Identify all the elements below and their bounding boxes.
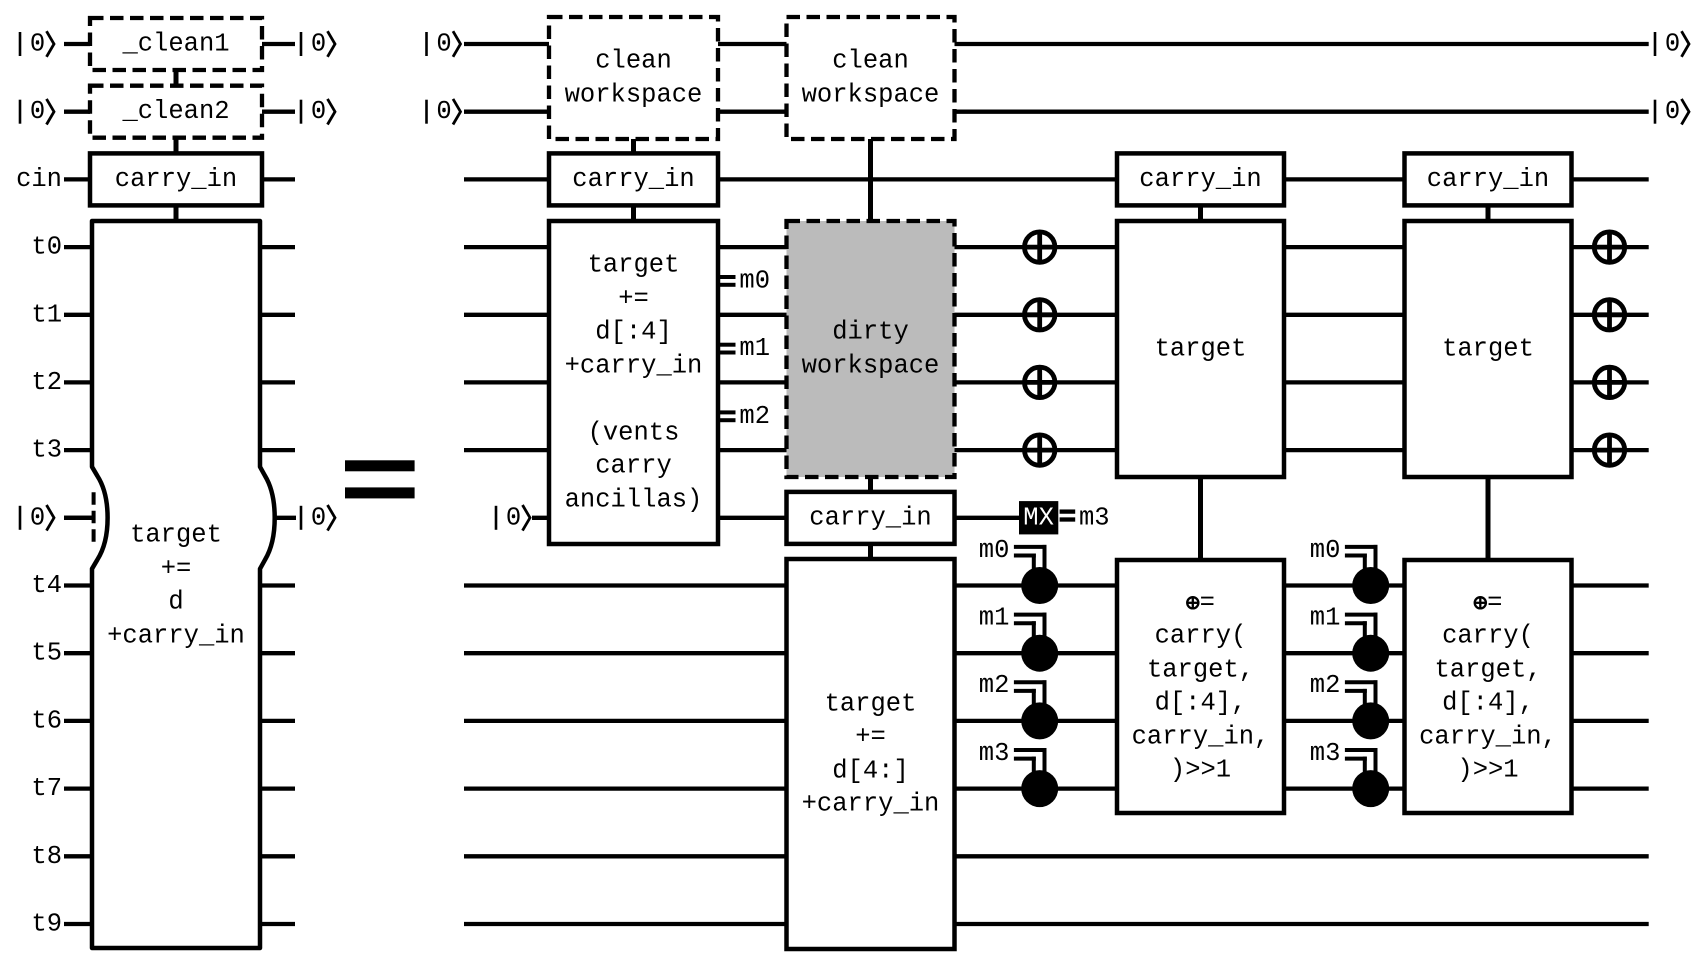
svg-text:t1: t1 <box>31 300 62 329</box>
svg-text:target,: target, <box>1147 655 1254 684</box>
svg-text:m0: m0 <box>979 536 1010 565</box>
svg-text:+carry_in: +carry_in <box>802 790 940 819</box>
svg-text:d[:4],: d[:4], <box>1442 689 1534 718</box>
svg-text:+=: += <box>618 284 649 313</box>
svg-text:m2: m2 <box>979 671 1010 700</box>
svg-text:carry(: carry( <box>1442 622 1534 651</box>
svg-text:d[:4]: d[:4] <box>595 318 672 347</box>
svg-text:+=: += <box>161 554 192 583</box>
svg-text:t2: t2 <box>31 368 62 397</box>
svg-text:t6: t6 <box>31 706 62 735</box>
svg-text:m1: m1 <box>739 334 770 363</box>
svg-text:carry_in,: carry_in, <box>1132 722 1270 751</box>
svg-text:target,: target, <box>1434 655 1541 684</box>
svg-text:m1: m1 <box>979 604 1010 633</box>
svg-text:workspace: workspace <box>802 351 940 380</box>
svg-text:target: target <box>825 689 917 718</box>
svg-text:target: target <box>130 521 222 550</box>
svg-text:_clean1: _clean1 <box>121 30 229 59</box>
svg-text:m0: m0 <box>1310 536 1341 565</box>
svg-text:+carry_in: +carry_in <box>565 351 703 380</box>
svg-text:)>>1: )>>1 <box>1170 756 1231 785</box>
svg-text:clean: clean <box>595 47 672 76</box>
svg-text:ancillas): ancillas) <box>565 485 703 514</box>
svg-text:target: target <box>1155 335 1247 364</box>
svg-text:t4: t4 <box>31 571 62 600</box>
svg-text:MX: MX <box>1023 503 1054 532</box>
svg-text:dirty: dirty <box>832 318 909 347</box>
svg-text:m3: m3 <box>979 739 1010 768</box>
svg-text:target: target <box>1442 335 1534 364</box>
svg-text:carry_in: carry_in <box>1139 165 1261 194</box>
svg-text:t5: t5 <box>31 639 62 668</box>
svg-text:carry_in: carry_in <box>572 165 694 194</box>
svg-text:d: d <box>168 588 183 617</box>
svg-text:m2: m2 <box>1310 671 1341 700</box>
svg-text:cin: cin <box>16 165 62 194</box>
svg-text:carry_in: carry_in <box>1427 165 1549 194</box>
svg-text:_clean2: _clean2 <box>121 97 229 126</box>
svg-text:target: target <box>588 251 680 280</box>
svg-text:t3: t3 <box>31 436 62 465</box>
svg-text:clean: clean <box>832 47 909 76</box>
svg-text:m0: m0 <box>739 266 770 295</box>
svg-text:t8: t8 <box>31 842 62 871</box>
svg-text:+=: += <box>855 723 886 752</box>
svg-text:carry_in,: carry_in, <box>1419 722 1557 751</box>
svg-text:carry_in: carry_in <box>115 165 237 194</box>
svg-text:t7: t7 <box>31 774 62 803</box>
svg-text:=: = <box>1487 588 1502 617</box>
svg-text:carry_in: carry_in <box>809 503 931 532</box>
svg-text:d[:4],: d[:4], <box>1155 689 1247 718</box>
svg-text:m2: m2 <box>739 402 770 431</box>
svg-text:carry: carry <box>595 452 672 481</box>
svg-text:m1: m1 <box>1310 604 1341 633</box>
svg-text:workspace: workspace <box>802 80 940 109</box>
svg-text:=: = <box>1200 588 1215 617</box>
svg-text:t0: t0 <box>31 233 62 262</box>
svg-text:(vents: (vents <box>588 418 680 447</box>
svg-text:+carry_in: +carry_in <box>107 621 245 650</box>
svg-text:)>>1: )>>1 <box>1457 756 1518 785</box>
svg-text:m3: m3 <box>1079 503 1110 532</box>
svg-text:carry(: carry( <box>1155 622 1247 651</box>
svg-text:t9: t9 <box>31 910 62 939</box>
svg-text:m3: m3 <box>1310 739 1341 768</box>
svg-text:workspace: workspace <box>565 80 703 109</box>
svg-text:d[4:]: d[4:] <box>832 756 909 785</box>
